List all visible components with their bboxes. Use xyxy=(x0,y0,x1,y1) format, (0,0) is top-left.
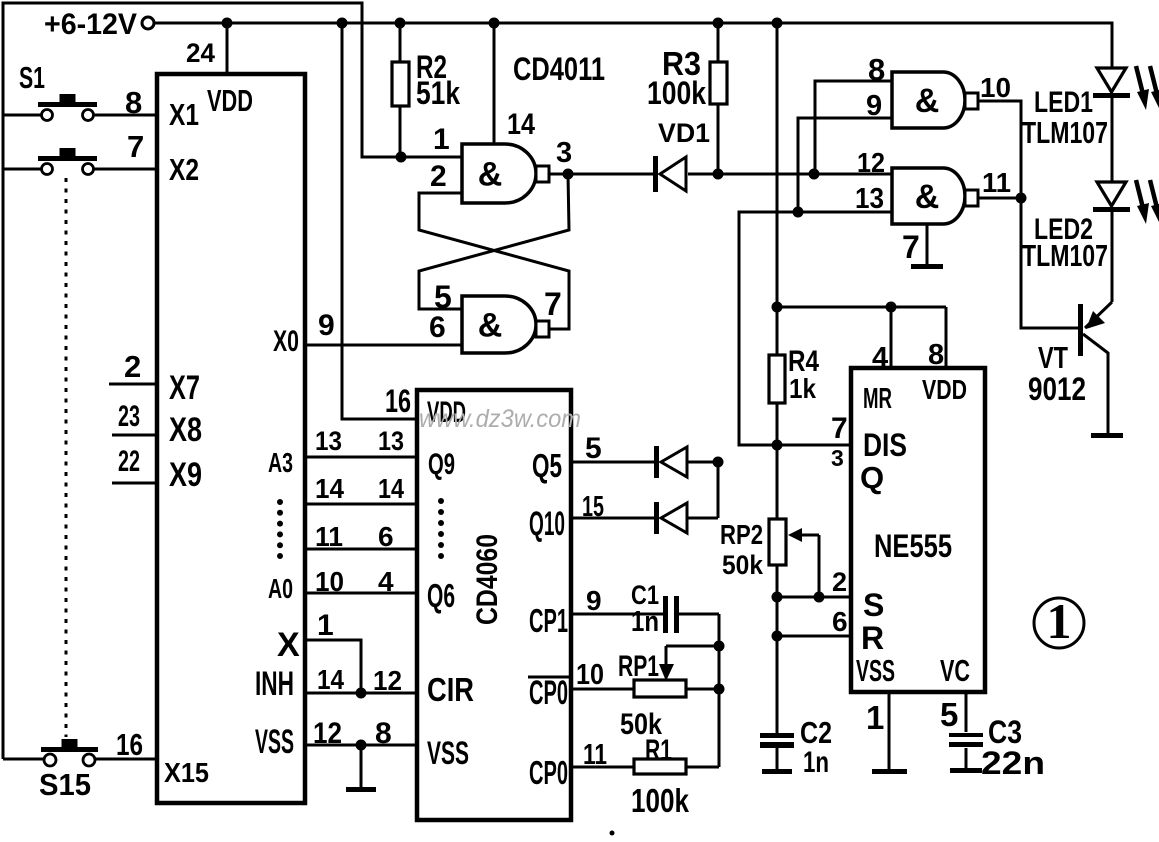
svg-text:TLM107: TLM107 xyxy=(1022,238,1108,273)
svg-text:12: 12 xyxy=(313,717,342,750)
svg-text:1n: 1n xyxy=(803,746,829,779)
svg-text:VT: VT xyxy=(1038,340,1068,375)
svg-text:CP1: CP1 xyxy=(529,602,568,639)
svg-text:14: 14 xyxy=(315,473,344,504)
svg-text:9: 9 xyxy=(586,585,602,616)
svg-text:12: 12 xyxy=(857,147,885,178)
svg-text:RP2: RP2 xyxy=(720,519,763,550)
svg-text:22n: 22n xyxy=(981,745,1045,781)
svg-text:7: 7 xyxy=(902,229,920,265)
svg-text:16: 16 xyxy=(385,383,411,419)
svg-text:14: 14 xyxy=(317,664,344,695)
svg-text:5: 5 xyxy=(940,696,958,733)
svg-text:R: R xyxy=(861,620,884,656)
svg-text:8: 8 xyxy=(928,339,944,371)
svg-text:10: 10 xyxy=(576,659,604,691)
svg-text:X9: X9 xyxy=(169,456,202,494)
svg-text:16: 16 xyxy=(116,727,143,762)
svg-text:5: 5 xyxy=(585,432,602,465)
svg-text:CD4060: CD4060 xyxy=(471,534,504,625)
svg-text:1: 1 xyxy=(866,699,884,736)
svg-text:7: 7 xyxy=(127,129,144,164)
svg-text:VDD: VDD xyxy=(922,374,967,405)
svg-text:VSS: VSS xyxy=(856,653,895,688)
svg-text:Q6: Q6 xyxy=(427,577,455,614)
svg-text:Q5: Q5 xyxy=(532,447,562,484)
svg-text:NE555: NE555 xyxy=(874,528,952,564)
svg-text:12: 12 xyxy=(373,665,402,696)
svg-text:A3: A3 xyxy=(268,447,293,478)
svg-text:2: 2 xyxy=(430,160,447,193)
svg-text:VD1: VD1 xyxy=(658,118,710,148)
svg-text:14: 14 xyxy=(378,473,404,504)
svg-text:6: 6 xyxy=(832,606,848,637)
svg-text:X1: X1 xyxy=(169,97,199,132)
svg-text:14: 14 xyxy=(507,108,535,141)
svg-text:9: 9 xyxy=(318,309,335,342)
svg-text:Q: Q xyxy=(860,460,884,495)
svg-text:www.dz3w.com: www.dz3w.com xyxy=(419,405,581,433)
svg-text:VSS: VSS xyxy=(255,723,294,761)
svg-text:A0: A0 xyxy=(268,573,293,604)
svg-text:S15: S15 xyxy=(39,767,91,802)
svg-text:2: 2 xyxy=(832,567,847,597)
svg-text:5: 5 xyxy=(434,279,452,315)
svg-text:100k: 100k xyxy=(647,75,706,111)
svg-text:1: 1 xyxy=(1047,593,1072,649)
svg-text:MR: MR xyxy=(863,383,892,415)
svg-text:3: 3 xyxy=(556,137,572,169)
svg-text:X2: X2 xyxy=(169,152,199,187)
svg-text:Q9: Q9 xyxy=(428,448,455,481)
svg-text:VC: VC xyxy=(940,653,970,688)
svg-text:23: 23 xyxy=(118,400,140,433)
svg-text:9012: 9012 xyxy=(1028,371,1086,407)
svg-text:3: 3 xyxy=(831,445,844,471)
svg-text:1: 1 xyxy=(433,123,450,156)
svg-text:DIS: DIS xyxy=(863,427,907,463)
svg-text:11: 11 xyxy=(583,739,607,771)
svg-text:VDD: VDD xyxy=(207,83,253,118)
svg-text:CP0: CP0 xyxy=(529,754,568,791)
svg-text:&: & xyxy=(478,156,503,194)
svg-text:50k: 50k xyxy=(722,550,764,580)
svg-text:4: 4 xyxy=(872,342,888,374)
svg-text:8: 8 xyxy=(868,52,885,87)
svg-text:7: 7 xyxy=(831,412,848,445)
svg-text:15: 15 xyxy=(582,491,604,523)
svg-text:C2: C2 xyxy=(800,715,832,750)
svg-text:8: 8 xyxy=(125,85,142,120)
svg-text:11: 11 xyxy=(315,521,343,552)
svg-text:6: 6 xyxy=(378,521,394,552)
svg-text:&: & xyxy=(915,82,940,120)
svg-text:RP1: RP1 xyxy=(618,650,659,683)
svg-text:TLM107: TLM107 xyxy=(1022,115,1108,150)
svg-text:CP0: CP0 xyxy=(529,674,568,712)
svg-text:13: 13 xyxy=(378,426,404,456)
svg-text:INH: INH xyxy=(255,665,294,703)
svg-text:10: 10 xyxy=(315,566,344,597)
svg-text:&: & xyxy=(478,307,503,345)
svg-text:X0: X0 xyxy=(273,325,299,358)
svg-text:22: 22 xyxy=(118,445,140,478)
svg-text:11: 11 xyxy=(982,167,1011,198)
svg-text:CIR: CIR xyxy=(427,671,474,708)
svg-text:CD4011: CD4011 xyxy=(513,51,605,87)
svg-text:7: 7 xyxy=(544,286,562,322)
svg-text:13: 13 xyxy=(855,183,884,215)
svg-text:8: 8 xyxy=(375,717,392,750)
svg-text:1: 1 xyxy=(317,609,334,642)
svg-text:&: & xyxy=(915,178,940,216)
svg-text:10: 10 xyxy=(980,72,1011,103)
svg-text:X7: X7 xyxy=(169,369,200,407)
svg-text:X15: X15 xyxy=(164,757,209,788)
svg-text:VSS: VSS xyxy=(427,735,469,771)
svg-text:1n: 1n xyxy=(631,606,659,638)
svg-text:13: 13 xyxy=(315,426,342,456)
svg-text:X: X xyxy=(277,626,300,664)
svg-text:24: 24 xyxy=(186,38,215,68)
svg-text:9: 9 xyxy=(866,90,882,122)
svg-text:+6-12V: +6-12V xyxy=(44,8,137,41)
svg-text:S: S xyxy=(863,587,884,623)
svg-text:1k: 1k xyxy=(789,373,816,404)
svg-text:6: 6 xyxy=(429,311,446,344)
svg-text:S1: S1 xyxy=(19,60,45,95)
svg-text:2: 2 xyxy=(124,349,141,384)
svg-text:51k: 51k xyxy=(416,75,460,111)
svg-text:R1: R1 xyxy=(645,734,672,767)
svg-text:100k: 100k xyxy=(631,782,690,819)
svg-text:Q10: Q10 xyxy=(529,505,565,543)
svg-text:X8: X8 xyxy=(169,411,202,449)
svg-text:4: 4 xyxy=(378,566,394,597)
